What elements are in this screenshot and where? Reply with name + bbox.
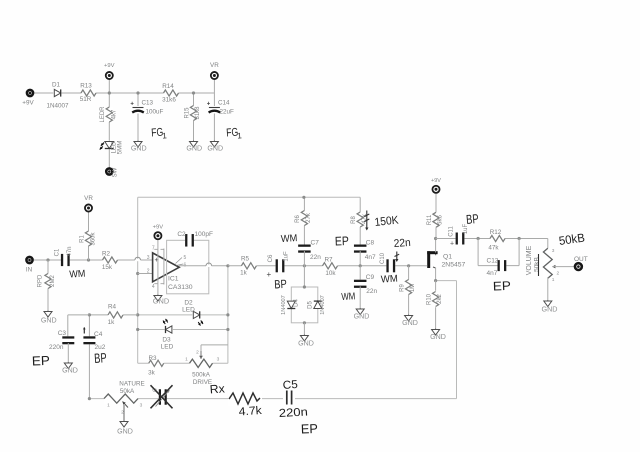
svg-text:51R: 51R (80, 96, 92, 103)
svg-text:C3: C3 (58, 330, 67, 337)
svg-text:2: 2 (147, 268, 150, 274)
svg-text:+9V: +9V (153, 225, 164, 231)
svg-text:WM: WM (381, 274, 399, 286)
svg-text:100pF: 100pF (195, 231, 213, 238)
svg-text:D2: D2 (184, 300, 193, 307)
svg-text:4n7: 4n7 (365, 254, 376, 261)
svg-text:47n: 47n (67, 246, 73, 256)
svg-text:1N4007: 1N4007 (46, 103, 69, 110)
svg-text:R1: R1 (79, 235, 85, 243)
svg-text:100uF: 100uF (146, 109, 164, 116)
svg-text:R10: R10 (426, 293, 432, 305)
svg-text:EP: EP (32, 353, 51, 369)
svg-text:C1: C1 (55, 248, 61, 256)
svg-text:R9: R9 (399, 284, 405, 292)
svg-text:R14: R14 (162, 83, 174, 90)
svg-text:7: 7 (152, 246, 155, 252)
svg-text:150K: 150K (374, 215, 399, 229)
svg-text:RPD: RPD (38, 274, 44, 287)
svg-text:C13: C13 (142, 99, 154, 106)
svg-text:2: 2 (121, 410, 124, 416)
svg-text:22uF: 22uF (220, 109, 235, 116)
svg-text:1: 1 (107, 403, 110, 409)
svg-text:R4: R4 (108, 304, 117, 311)
svg-text:C14: C14 (218, 99, 230, 106)
svg-text:500kA: 500kA (192, 372, 211, 379)
svg-text:NATURE: NATURE (119, 381, 144, 388)
svg-text:22n: 22n (310, 254, 321, 261)
svg-text:VR: VR (84, 195, 93, 202)
svg-text:+: + (155, 255, 160, 264)
svg-text:+: + (267, 270, 272, 279)
svg-text:1N4007: 1N4007 (281, 295, 287, 315)
svg-text:2N5457: 2N5457 (442, 262, 466, 269)
svg-text:C8: C8 (366, 240, 375, 247)
svg-text:3: 3 (217, 357, 220, 363)
svg-text:LED: LED (182, 307, 195, 314)
svg-text:GND: GND (298, 339, 314, 347)
svg-text:GND: GND (131, 145, 147, 153)
svg-text:R13: R13 (80, 83, 92, 90)
svg-text:50kB: 50kB (534, 257, 541, 272)
svg-text:220n: 220n (279, 406, 309, 420)
svg-text:1k: 1k (108, 319, 116, 326)
svg-text:LEDR: LEDR (100, 106, 106, 123)
svg-text:4: 4 (152, 284, 155, 290)
svg-text:1: 1 (185, 357, 188, 363)
svg-text:R12: R12 (490, 229, 502, 236)
svg-text:R6: R6 (295, 215, 301, 223)
svg-text:LED: LED (161, 344, 174, 351)
svg-text:5: 5 (184, 255, 187, 261)
svg-text:EP: EP (335, 234, 349, 248)
svg-text:R5: R5 (241, 255, 250, 262)
svg-text:EP: EP (493, 279, 511, 294)
svg-text:D1: D1 (52, 82, 61, 89)
svg-text:WM: WM (341, 291, 356, 303)
svg-text:WM: WM (69, 269, 86, 281)
svg-text:C4: C4 (94, 331, 103, 338)
svg-text:+: + (130, 102, 134, 108)
svg-text:WM: WM (281, 233, 298, 245)
svg-text:4k7: 4k7 (112, 109, 118, 119)
svg-text:CA3130: CA3130 (168, 284, 193, 291)
svg-text:C9: C9 (366, 274, 375, 281)
svg-text:BP: BP (94, 350, 108, 366)
svg-text:+: + (207, 102, 211, 108)
svg-text:C6: C6 (268, 254, 274, 262)
svg-text:OUT: OUT (574, 256, 588, 263)
svg-text:1uF: 1uF (284, 251, 290, 262)
svg-text:27k: 27k (306, 212, 312, 223)
svg-text:GND: GND (41, 316, 57, 324)
svg-text:1N4007: 1N4007 (320, 295, 326, 315)
svg-text:VR: VR (210, 62, 219, 69)
svg-text:C5: C5 (282, 379, 298, 392)
svg-text:3: 3 (552, 248, 555, 254)
svg-text:31k8: 31k8 (195, 106, 201, 120)
svg-text:EP: EP (301, 421, 319, 437)
svg-text:R3: R3 (148, 355, 157, 362)
svg-text:2: 2 (557, 271, 560, 277)
svg-text:BP: BP (274, 277, 287, 292)
svg-text:R8: R8 (351, 216, 357, 224)
svg-text:IN: IN (26, 267, 33, 274)
svg-text:GND: GND (207, 145, 223, 153)
svg-text:D5: D5 (307, 301, 313, 309)
svg-text:+: + (450, 241, 454, 248)
svg-text:220n: 220n (49, 344, 64, 351)
svg-text:50kA: 50kA (120, 388, 135, 395)
svg-text:GND: GND (402, 319, 418, 327)
svg-text:360k: 360k (90, 231, 96, 245)
svg-text:GND: GND (354, 312, 370, 320)
svg-text:R11: R11 (427, 214, 433, 225)
svg-text:+9V: +9V (431, 178, 441, 184)
svg-text:C7: C7 (311, 240, 320, 247)
svg-text:C11: C11 (449, 226, 455, 237)
svg-text:C2: C2 (177, 231, 186, 238)
svg-text:R2: R2 (102, 251, 111, 258)
svg-text:R7: R7 (324, 257, 333, 264)
svg-text:1: 1 (552, 277, 555, 283)
svg-text:1k: 1k (240, 270, 248, 277)
svg-text:SW: SW (113, 167, 119, 177)
svg-text:2M2: 2M2 (50, 275, 56, 287)
svg-text:GND: GND (153, 296, 169, 305)
svg-text:C10: C10 (380, 252, 386, 264)
svg-text:1M: 1M (410, 284, 416, 292)
svg-text:GND: GND (62, 366, 78, 374)
svg-text:47k: 47k (488, 244, 499, 251)
svg-text:GND: GND (117, 428, 133, 436)
svg-text:2: 2 (196, 350, 199, 356)
svg-text:15k: 15k (102, 264, 113, 271)
svg-text:5MM: 5MM (116, 141, 123, 155)
svg-text:BP: BP (465, 211, 479, 227)
svg-text:VOLUME: VOLUME (526, 245, 533, 275)
svg-text:2k2: 2k2 (437, 294, 443, 304)
svg-text:3: 3 (140, 403, 143, 409)
svg-text:D4: D4 (294, 299, 300, 307)
svg-text:22n: 22n (366, 288, 377, 295)
svg-text:4n7: 4n7 (487, 270, 498, 277)
svg-text:C12: C12 (487, 257, 499, 264)
svg-text:D3: D3 (162, 337, 171, 344)
svg-text:10k: 10k (325, 270, 336, 277)
svg-text:Rx: Rx (209, 381, 225, 396)
svg-text:22n: 22n (393, 237, 411, 250)
svg-text:Q1: Q1 (443, 254, 452, 261)
svg-text:5k6: 5k6 (438, 215, 444, 225)
svg-text:GND: GND (430, 333, 446, 341)
svg-text:31k6: 31k6 (162, 97, 176, 104)
svg-text:R15: R15 (185, 107, 191, 119)
svg-text:+9V: +9V (104, 63, 115, 69)
svg-text:GND: GND (542, 305, 558, 314)
svg-text:4.7k: 4.7k (238, 405, 262, 419)
svg-text:+9V: +9V (22, 100, 34, 107)
svg-text:3: 3 (147, 255, 150, 261)
svg-text:GND: GND (186, 145, 202, 153)
svg-text:IC1: IC1 (168, 276, 179, 283)
svg-text:3k: 3k (148, 370, 156, 377)
